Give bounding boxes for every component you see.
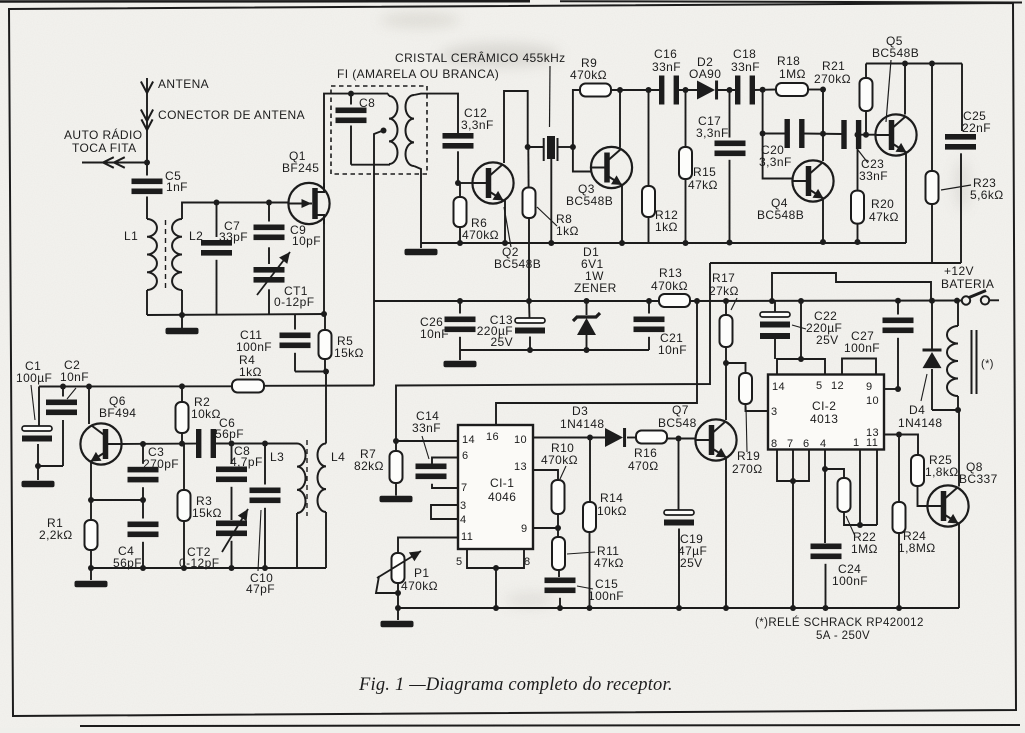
- svg-text:BC548B: BC548B: [872, 46, 919, 60]
- svg-text:33nF: 33nF: [731, 60, 760, 74]
- pointer R8 label: [537, 207, 557, 226]
- svg-text:16: 16: [486, 431, 499, 443]
- inductor L4: [318, 444, 327, 513]
- wire CI-2 pin7 riser to ground: [792, 450, 794, 609]
- resistor R20: [851, 191, 864, 224]
- junction dots on R4 wire: [60, 384, 66, 390]
- svg-text:L1: L1: [124, 229, 138, 243]
- transistor Q6 BF494 (mirrored): [80, 423, 121, 464]
- junction R2 bottom: [179, 441, 185, 447]
- wire CI-2 pin4 riser: [824, 450, 826, 544]
- svg-text:22nF: 22nF: [962, 121, 991, 135]
- ground below P1: [397, 608, 399, 620]
- junction R17/R19/Q7 node: [723, 360, 729, 366]
- wire Q7 emitter to ground: [725, 458, 727, 609]
- capacitor C1 electrolytic: [22, 426, 52, 431]
- capacitor C11: [280, 333, 311, 339]
- wire R17 bottom to node: [725, 347, 727, 363]
- wire R10-R11 link: [557, 514, 559, 537]
- diode D2 OA90: [697, 81, 715, 100]
- capacitor C5: [132, 179, 163, 185]
- svg-text:R17: R17: [712, 271, 735, 285]
- svg-text:33pF: 33pF: [219, 230, 248, 244]
- svg-text:8: 8: [524, 556, 531, 568]
- resistor R7: [390, 451, 403, 483]
- wire R20 bottom: [857, 224, 859, 242]
- svg-text:25V: 25V: [490, 335, 513, 349]
- svg-text:100nF: 100nF: [844, 341, 880, 355]
- wire R22 bottom to pins 1-11: [844, 512, 877, 525]
- svg-text:+12V: +12V: [944, 264, 974, 278]
- wire Q1 drain to FI box: [324, 94, 388, 183]
- wire D1 leads: [586, 301, 588, 315]
- svg-text:2,2kΩ: 2,2kΩ: [39, 528, 73, 542]
- svg-text:BC548B: BC548B: [566, 194, 613, 208]
- wire FI secondary top to C12: [414, 94, 458, 133]
- resistor R14: [583, 502, 596, 532]
- wire CT2 bottom: [231, 541, 233, 568]
- relay coil: [957, 301, 959, 326]
- svg-text:CRISTAL CERÂMICO 455kHz: CRISTAL CERÂMICO 455kHz: [395, 50, 566, 65]
- wire R9 left riser: [573, 90, 580, 147]
- wire L1 bottom lead: [146, 290, 148, 315]
- wire C20 right to C23: [803, 133, 842, 136]
- pointer R22 label: [846, 516, 855, 536]
- svg-text:6: 6: [462, 450, 469, 462]
- wire C7 leads: [216, 203, 218, 238]
- svg-text:14: 14: [772, 381, 785, 393]
- wire stepped +12V link: [772, 273, 931, 301]
- svg-text:56pF: 56pF: [215, 427, 244, 441]
- capacitor C7: [201, 240, 232, 246]
- pointer C2 label: [67, 388, 76, 399]
- pointer Q2 label: [504, 207, 511, 247]
- capacitor C9: [254, 225, 285, 231]
- wire C9 top lead: [268, 203, 270, 222]
- trimmer CT1: [254, 267, 285, 273]
- svg-text:8: 8: [771, 438, 778, 450]
- junction C20 tap: [760, 87, 766, 93]
- svg-text:BC548B: BC548B: [757, 208, 804, 222]
- svg-text:1,8MΩ: 1,8MΩ: [898, 541, 936, 555]
- wire C21 leads: [648, 301, 650, 314]
- wire Q6 emitter: [90, 462, 92, 500]
- capacitor C27: [883, 318, 914, 324]
- svg-text:4013: 4013: [810, 412, 838, 426]
- svg-text:R19: R19: [737, 449, 760, 463]
- capacitor C2: [46, 400, 77, 406]
- junction dots on IF ground bus: [457, 240, 463, 246]
- junction P1 wiper: [395, 590, 401, 596]
- resistor R23: [926, 171, 939, 204]
- wire C20 tap riser: [762, 90, 764, 134]
- junction Q3 collector: [617, 87, 623, 93]
- wire D4 riser: [931, 301, 933, 350]
- wire D3 to R16: [627, 437, 636, 439]
- svg-text:1,8kΩ: 1,8kΩ: [925, 465, 959, 479]
- wire P1 bottom: [397, 583, 399, 608]
- svg-text:4046: 4046: [488, 490, 516, 504]
- capacitor C20: [785, 119, 790, 148]
- wire Q5 collector: [904, 64, 906, 115]
- svg-text:1kΩ: 1kΩ: [556, 224, 579, 238]
- svg-text:470Ω: 470Ω: [628, 459, 659, 473]
- svg-text:9: 9: [866, 381, 873, 393]
- IC CI-1 4046: [458, 425, 533, 549]
- svg-text:82kΩ: 82kΩ: [354, 459, 384, 473]
- wire crystal left link: [528, 146, 544, 148]
- resistor R25: [911, 455, 924, 486]
- svg-text:470kΩ: 470kΩ: [651, 279, 688, 293]
- wire Q1 source down to R5/C11 node: [323, 224, 325, 314]
- wire C24 bottom: [825, 564, 827, 608]
- wire C1-C2 bottom link: [38, 465, 63, 467]
- svg-text:12: 12: [831, 380, 844, 392]
- wire R4 to C1/C2: [39, 385, 232, 387]
- capacitor C16: [659, 76, 664, 105]
- svg-text:47pF: 47pF: [246, 582, 275, 596]
- wire Q6 base rail: [122, 443, 196, 445]
- junction emitter node: [88, 497, 94, 503]
- svg-text:10nF: 10nF: [60, 370, 89, 384]
- wire C25 leads: [961, 64, 963, 132]
- junction base C3 tap: [140, 441, 146, 447]
- svg-text:3,3nF: 3,3nF: [461, 118, 494, 132]
- resistor R6: [454, 197, 467, 227]
- junction dots bottom-left bus: [140, 565, 146, 571]
- wire C19 leads: [678, 439, 680, 511]
- capacitor C4: [128, 522, 159, 528]
- wire C8 bottom link to primary: [351, 164, 390, 166]
- svg-text:25V: 25V: [680, 556, 703, 570]
- resistor R16: [636, 431, 667, 444]
- wire C18 to R18: [753, 89, 776, 92]
- svg-text:47kΩ: 47kΩ: [869, 210, 899, 224]
- wire ground bus IF stages: [421, 242, 906, 244]
- svg-text:0-12pF: 0-12pF: [274, 295, 314, 309]
- svg-text:AUTO RÁDIO: AUTO RÁDIO: [64, 127, 142, 142]
- svg-text:BF245: BF245: [282, 161, 319, 175]
- wire CI-1 pins 5-8 bracket: [467, 549, 524, 568]
- wire C2 leads: [62, 387, 64, 397]
- svg-text:100nF: 100nF: [236, 340, 272, 354]
- junction pin14 node: [393, 438, 399, 444]
- wire CI-2 pin9/10 link: [884, 388, 898, 390]
- svg-text:33nF: 33nF: [652, 60, 681, 74]
- resistor R10: [552, 480, 565, 514]
- svg-text:470kΩ: 470kΩ: [541, 453, 578, 467]
- wire top right rail: [866, 63, 962, 65]
- resistor R13: [659, 294, 690, 307]
- transistor Q3 BC548B: [591, 147, 632, 188]
- wire Q2 emitter: [504, 201, 506, 244]
- resistor R17: [720, 315, 733, 347]
- svg-text:33nF: 33nF: [859, 169, 888, 183]
- page edge top: [0, 0, 530, 3]
- resistor R9: [580, 84, 611, 97]
- wire bottom-left bus: [91, 567, 326, 569]
- junction bracket: [493, 565, 499, 571]
- junction R21 bottom on base node: [863, 132, 869, 138]
- svg-text:47kΩ: 47kΩ: [688, 178, 718, 192]
- junction dots base-tank rail: [229, 441, 235, 447]
- wire R2 leads: [181, 386, 183, 402]
- ground FI secondary: [405, 249, 438, 256]
- potentiometer P1: [392, 553, 405, 583]
- wire C15 bottom: [559, 598, 561, 608]
- wire C1 bottom lead: [37, 444, 39, 466]
- svg-text:1nF: 1nF: [166, 180, 188, 194]
- svg-text:4: 4: [460, 514, 467, 526]
- junction crystal right: [570, 144, 576, 150]
- svg-text:5: 5: [456, 556, 463, 568]
- wire top bus R9 to C16: [611, 89, 663, 91]
- svg-text:Q7: Q7: [672, 403, 689, 417]
- svg-text:L4: L4: [331, 450, 345, 464]
- page edge bottom: [80, 725, 1020, 726]
- junction Q1 source node: [321, 311, 327, 317]
- junction C23 right: [855, 132, 861, 138]
- diode D3: [605, 428, 623, 447]
- wire C13 leads: [528, 301, 531, 318]
- pointer Q5 label: [886, 60, 891, 122]
- capacitor C8 (inside FI): [336, 108, 367, 114]
- junction C1 bottom: [35, 463, 41, 469]
- svg-text:BC548: BC548: [658, 416, 697, 430]
- wire D2 to C18: [718, 89, 740, 91]
- scan smudges: [380, 12, 970, 608]
- junction C17 top: [727, 87, 733, 93]
- svg-text:D4: D4: [909, 403, 925, 417]
- svg-text:15kΩ: 15kΩ: [334, 346, 364, 360]
- wire R18 to junction: [808, 89, 823, 91]
- wire C23 right to Q5 base: [860, 134, 876, 136]
- svg-text:470kΩ: 470kΩ: [401, 579, 438, 593]
- svg-text:D3: D3: [572, 404, 588, 418]
- wire R16 to Q7 base: [667, 438, 696, 440]
- wire R14 leads: [589, 438, 591, 503]
- capacitor C17: [715, 141, 746, 147]
- inductor L2: [172, 219, 182, 290]
- wire bridge pins 12-9: [842, 359, 876, 375]
- wire emitter node link: [91, 499, 143, 501]
- capacitor C26: [445, 317, 476, 323]
- wire R15 leads: [685, 90, 687, 147]
- diode D4 1N4148: [923, 349, 942, 352]
- wire Q2 base: [458, 182, 473, 184]
- wire C14 pin7 link: [432, 484, 458, 488]
- wire C6 right to L3: [215, 443, 298, 445]
- svg-text:33nF: 33nF: [412, 421, 441, 435]
- svg-text:10: 10: [514, 434, 527, 446]
- wire CI-1 pin14 node to +6V wire-1: [396, 263, 710, 441]
- wire Q4 collector riser: [822, 90, 824, 162]
- svg-text:R20: R20: [871, 197, 894, 211]
- svg-text:7: 7: [787, 438, 794, 450]
- wire D4 to relay bottom: [932, 409, 958, 411]
- svg-text:CONECTOR DE ANTENA: CONECTOR DE ANTENA: [158, 108, 305, 122]
- wire CI-1 pin10 to D3: [533, 437, 605, 439]
- svg-text:BATERIA: BATERIA: [941, 277, 994, 291]
- wire R12 leads: [648, 90, 650, 186]
- svg-text:R14: R14: [600, 491, 623, 505]
- pointer R11 label: [567, 552, 595, 554]
- svg-text:10kΩ: 10kΩ: [597, 504, 627, 518]
- svg-text:(*)RELÉ SCHRACK RP420012: (*)RELÉ SCHRACK RP420012: [755, 616, 924, 629]
- core dashed L3-L4: [306, 440, 308, 516]
- svg-text:100µF: 100µF: [16, 371, 52, 385]
- pointer D4 label: [921, 374, 927, 401]
- wire R1 leads: [90, 500, 92, 520]
- wire bracket to ground bus: [495, 568, 497, 608]
- junction crystal left: [525, 144, 531, 150]
- wire D4 bottom: [931, 369, 933, 410]
- junction P1 ground: [395, 605, 401, 611]
- wire zener group bottom: [460, 349, 649, 351]
- pointer line crystal label: [549, 66, 552, 127]
- resistor R2: [176, 402, 189, 433]
- svg-text:3,3nF: 3,3nF: [759, 155, 792, 169]
- wire pin11 riser: [876, 450, 878, 526]
- capacitor C25: [945, 134, 976, 140]
- junction FI primary tap: [381, 128, 387, 134]
- svg-text:10kΩ: 10kΩ: [191, 407, 221, 421]
- wire C17 leads: [729, 90, 731, 138]
- pointer C22 label: [792, 325, 806, 329]
- svg-text:1MΩ: 1MΩ: [779, 67, 806, 81]
- svg-text:270pF: 270pF: [143, 457, 179, 471]
- wire C14 pin6 link: [432, 458, 458, 464]
- resistor R8: [523, 188, 536, 219]
- resistor R4: [232, 380, 264, 393]
- wire L3 bottom: [296, 513, 298, 568]
- svg-text:270Ω: 270Ω: [732, 462, 763, 476]
- wire C3 leads: [142, 444, 144, 464]
- wire CI-2 pins 8-6 bracket: [777, 450, 809, 482]
- wire L2 bottom lead: [181, 290, 183, 315]
- ground tank: [181, 315, 183, 328]
- svg-text:7: 7: [461, 482, 468, 494]
- wire CI-1 pin9 link: [533, 527, 558, 529]
- transistor Q4 BC548B: [792, 160, 833, 201]
- transistor Q8 BC337: [927, 485, 968, 526]
- wire C22 riser: [774, 301, 776, 312]
- wire Q3 base jog: [573, 147, 591, 172]
- wire Q2 collector to crystal: [504, 91, 528, 163]
- wire Q3 emitter: [621, 186, 623, 243]
- wire R22 branch: [825, 469, 844, 478]
- wire FI tap to +6V rail riser: [374, 131, 383, 386]
- junction C7 top: [214, 200, 220, 206]
- wire C11-R5 bottom link: [295, 371, 326, 373]
- svg-text:BC548B: BC548B: [494, 257, 541, 271]
- svg-text:4,7pF: 4,7pF: [230, 455, 263, 469]
- capacitor C3: [128, 467, 159, 473]
- wire Q3 collector riser: [619, 90, 621, 148]
- svg-text:C8: C8: [359, 96, 375, 110]
- svg-text:R18: R18: [777, 54, 800, 68]
- transistor Q7 BC548: [695, 419, 736, 460]
- svg-text:11: 11: [461, 531, 473, 543]
- capacitor C12: [443, 133, 474, 139]
- svg-text:3,3nF: 3,3nF: [696, 126, 729, 140]
- resistor R11: [552, 537, 565, 570]
- capacitor C8 (4,7pF): [216, 467, 247, 473]
- svg-text:100nF: 100nF: [832, 574, 868, 588]
- svg-text:5: 5: [816, 380, 823, 392]
- junction bridge: [798, 356, 804, 362]
- junction C20 left: [760, 131, 766, 137]
- resistor R5: [319, 330, 332, 359]
- wire C11 leads: [294, 315, 296, 330]
- wire CI-1 pin13 to R10: [533, 470, 558, 480]
- antenna symbol: [146, 78, 148, 163]
- svg-text:TOCA FITA: TOCA FITA: [72, 141, 137, 155]
- svg-text:100nF: 100nF: [588, 589, 624, 603]
- wire C20 left link: [763, 133, 786, 135]
- junction L2 bottom: [179, 312, 185, 318]
- wire FI primary top: [388, 94, 389, 96]
- capacitor C14: [416, 464, 447, 470]
- svg-text:1kΩ: 1kΩ: [655, 220, 678, 234]
- wire pins 3-4 loop: [431, 505, 458, 519]
- svg-text:470kΩ: 470kΩ: [462, 228, 499, 242]
- transistor Q1 (JFET BF245): [288, 183, 329, 224]
- svg-text:14: 14: [462, 434, 475, 446]
- resistor R18: [776, 83, 808, 96]
- svg-text:27kΩ: 27kΩ: [709, 284, 739, 298]
- junction R18 right: [820, 87, 826, 93]
- junction C20 right / Q4 collector: [820, 131, 826, 137]
- svg-text:4: 4: [820, 438, 827, 450]
- wire +6V rail: [374, 300, 659, 302]
- wire crystal right link: [558, 146, 573, 148]
- crystal ceramic filter 455kHz: [543, 138, 545, 161]
- svg-text:470kΩ: 470kΩ: [570, 68, 607, 82]
- wire C8 leads: [350, 94, 352, 105]
- wire Q8 emitter to ground bus: [958, 524, 960, 608]
- wire R6 leads: [459, 183, 461, 197]
- svg-text:25V: 25V: [816, 333, 839, 347]
- wire R3 leads: [183, 444, 185, 490]
- junction R12 top: [646, 87, 652, 93]
- wire R23 lower lead: [931, 204, 933, 263]
- node antenna junction: [144, 160, 150, 166]
- junction dots +6V rail: [457, 298, 463, 304]
- svg-text:C16: C16: [654, 47, 677, 61]
- svg-text:CI-2: CI-2: [812, 399, 836, 413]
- zener diode D1 6V1: [573, 313, 600, 321]
- capacitor C22 electrolytic: [760, 312, 790, 317]
- junction C27 bottom: [895, 386, 901, 392]
- wire R25 to Q8 base: [918, 486, 928, 506]
- svg-text:11: 11: [866, 437, 878, 449]
- svg-text:1N4148: 1N4148: [560, 417, 604, 431]
- wire R5 leads: [324, 314, 326, 330]
- junction C8 top: [348, 91, 354, 97]
- svg-text:1N4148: 1N4148: [898, 416, 942, 430]
- junction dots bottom ground bus: [493, 605, 499, 611]
- svg-text:BF494: BF494: [99, 406, 136, 420]
- pointer R17 label: [731, 298, 737, 310]
- junction dots zener group bottom: [527, 347, 533, 353]
- wire CI-2 pin13 to R25: [884, 435, 918, 456]
- capacitor C10: [250, 488, 281, 494]
- svg-text:1MΩ: 1MΩ: [851, 542, 878, 556]
- junction R15 top: [683, 87, 689, 93]
- svg-text:ANTENA: ANTENA: [158, 77, 209, 91]
- wire C10 leads: [264, 444, 266, 485]
